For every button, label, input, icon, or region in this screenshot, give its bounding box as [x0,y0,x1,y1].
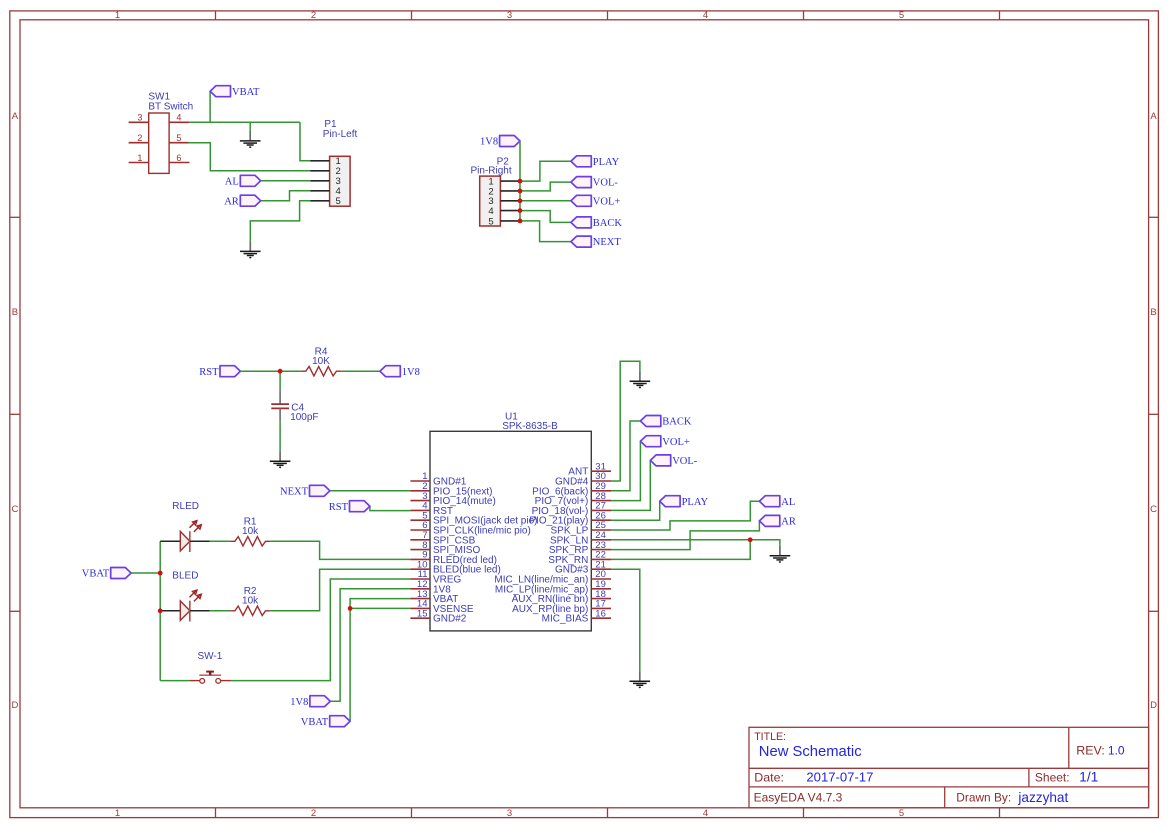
wire 1V8 bus down P2 pins [519,141,521,221]
svg-text:2: 2 [311,10,316,21]
svg-text:NEXT: NEXT [280,486,309,497]
junction dot VBAT rail upper [158,571,163,576]
svg-text:100pF: 100pF [290,412,318,423]
net flag BACK at U1 [640,416,660,427]
svg-text:SW-1: SW-1 [198,651,223,662]
net flag AL [240,175,260,186]
wire ground branch [249,122,251,131]
wire U1 pin29 to BACK [611,421,640,491]
svg-text:10k: 10k [242,526,259,537]
wire VBAT bottom flag to U1 pin13 [350,599,410,722]
svg-text:RST: RST [329,502,349,513]
svg-text:5: 5 [176,133,181,143]
wire C4 to ground [279,421,281,451]
svg-text:D: D [1150,700,1157,711]
ground below C4 [270,451,291,468]
net flag RST left [220,366,240,377]
wire U1 pin24 SPK_LN to ground right [611,540,780,546]
wire P2 pin3 to VOL+ [520,200,571,202]
LED BLED [160,610,180,612]
P1 pin numbers [336,156,341,207]
svg-text:3: 3 [137,113,142,123]
svg-text:AL: AL [225,176,239,187]
svg-text:1: 1 [115,10,120,21]
svg-text:1V8: 1V8 [290,697,308,708]
svg-text:VBAT: VBAT [301,717,329,728]
junction dot VSENSE [348,606,353,611]
resistor R2 10k [230,606,270,615]
svg-text:D: D [11,700,18,711]
svg-text:VBAT: VBAT [232,87,260,98]
svg-text:5: 5 [899,808,904,819]
ground right of U1 [770,546,791,563]
wire VBAT vertical rail [159,541,161,680]
svg-text:2: 2 [311,808,316,819]
connector P1 body [310,156,350,206]
wire U1 pin30 GND#4 to top ground [611,361,640,481]
svg-text:1/1: 1/1 [1079,769,1099,785]
wire U1 pin23 SPK_RP to AR [611,521,759,550]
wire U1 pin28 to VOL+ [611,441,640,500]
svg-text:1: 1 [137,153,142,163]
wire P2 pin1 to PLAY [520,161,571,181]
wire rail to SW-1 [160,680,190,682]
svg-text:NEXT: NEXT [593,237,622,248]
net flag AR [240,195,260,206]
svg-text:5: 5 [488,216,493,227]
wire P2 pin5 to NEXT [520,221,571,242]
frame column numbers [115,10,904,819]
svg-text:Drawn By:: Drawn By: [956,791,1011,805]
ground below right of U1 [630,671,651,688]
junction dots on P2 bus [518,179,523,224]
wire U1 pin26 to PLAY [611,501,660,520]
resistor R4 10K [301,367,341,376]
svg-text:1.0: 1.0 [1108,743,1125,757]
junction dot speaker net [748,537,753,542]
net flag NEXT at U1 [310,485,330,496]
wire P1 pin5 to ground [250,201,310,242]
svg-text:BACK: BACK [593,218,623,229]
svg-text:4: 4 [703,808,708,819]
net flag AR right [759,515,779,526]
connector P2 body [480,176,520,226]
svg-text:PLAY: PLAY [682,497,709,508]
capacitor C4 100pF [271,390,289,421]
wire RST to R4 [240,370,301,372]
svg-text:A: A [12,111,19,122]
svg-text:Pin-Right: Pin-Right [471,166,512,177]
switch SW-1 push button [190,672,231,684]
frame row letters [11,111,1157,711]
svg-text:GND#2: GND#2 [433,614,467,625]
wire U1 pin27 to VOL- [611,460,650,510]
ground below P1 [240,241,261,258]
net flag VOL- at P2 [571,177,591,188]
wire R4 to 1V8 flag [341,370,380,372]
svg-text:1: 1 [115,808,120,819]
net flag VOL- at U1 [650,455,670,466]
svg-text:B: B [12,307,18,318]
svg-text:1V8: 1V8 [480,137,498,148]
net flag PLAY at U1 [660,496,680,507]
svg-text:10K: 10K [312,356,330,367]
svg-text:1V8: 1V8 [402,367,420,378]
svg-text:AL: AL [781,497,795,508]
wire P2 pin4 to BACK [520,211,571,223]
LED RLED [160,540,180,542]
SW1 pin numbers [137,113,181,163]
wire R1 to U1 pin9 [270,541,410,559]
svg-text:3: 3 [507,808,512,819]
svg-text:4: 4 [176,113,181,123]
wire SW-1 to U1 pin11 [231,579,411,681]
svg-text:PLAY: PLAY [593,157,620,168]
svg-text:5: 5 [899,10,904,21]
net flag VOL+ at U1 [640,436,660,447]
svg-text:B: B [1150,307,1156,318]
svg-text:TITLE:: TITLE: [754,731,786,743]
svg-text:REV:: REV: [1076,743,1104,757]
ground near P1 [240,131,261,148]
svg-text:Date:: Date: [754,771,784,785]
svg-text:3: 3 [507,10,512,21]
switch SW1 BT Switch body [129,113,190,173]
wire VBAT flag to SW1 pin 4 net [209,91,211,122]
net flag 1V8 bottom [310,696,330,707]
net flag 1V8 at P2 [500,136,520,147]
svg-text:2: 2 [137,133,142,143]
svg-text:BLED: BLED [172,570,198,581]
resistor R1 10k [230,537,270,546]
svg-text:BACK: BACK [662,417,692,428]
wire U1 pin25 SPK_LP to AL [611,501,759,530]
wire R2 to U1 pin10 [270,569,410,611]
net flag BACK at P2 [571,217,591,228]
wire riser down to P1 pin1 [300,122,310,161]
title block lines [749,727,1149,808]
wire SW1 pin5 to P1 pin2 [188,143,310,171]
svg-text:VBAT: VBAT [82,569,110,580]
svg-text:Pin-Left: Pin-Left [323,129,358,140]
svg-text:VOL-: VOL- [593,178,619,189]
wire AR flag to P1 pin4 [261,191,311,201]
P2 pin numbers [488,177,493,228]
svg-text:VOL+: VOL+ [662,437,690,448]
svg-text:6: 6 [176,153,181,163]
svg-text:New Schematic: New Schematic [759,744,862,760]
svg-text:5: 5 [336,196,341,207]
wire VSENSE branch to U1 pin14 [350,607,410,609]
svg-text:VOL-: VOL- [672,456,698,467]
net flag PLAY at P2 [571,156,591,167]
svg-text:SPK-8635-B: SPK-8635-B [502,421,558,432]
net flag NEXT at P2 [571,236,591,247]
net flag VOL+ at P2 [571,195,591,206]
wire U1 pin22 SPK_RN to junction [611,540,750,560]
wire junction down to C4 [279,371,281,390]
svg-text:MIC_BIAS: MIC_BIAS [542,614,589,625]
U1 right pins 16-31 [494,461,611,624]
svg-text:RST: RST [199,367,219,378]
svg-text:AR: AR [781,517,796,528]
net flag 1V8 right of R4 [380,366,400,377]
svg-text:VOL+: VOL+ [593,196,621,207]
net flag VBAT left [111,568,131,579]
svg-text:Sheet:: Sheet: [1035,771,1070,785]
svg-text:10k: 10k [242,595,259,606]
net flag VBAT top [210,86,230,97]
svg-text:2017-07-17: 2017-07-17 [806,770,873,785]
svg-text:15: 15 [417,608,428,619]
svg-text:BT Switch: BT Switch [148,102,193,113]
svg-text:4: 4 [703,10,708,21]
svg-text:C: C [1150,504,1157,515]
wire P2 pin2 to VOL- [520,182,571,191]
wire VBAT flag to rail [131,572,160,574]
wire NEXT flag to U1 pin2 [330,490,411,492]
svg-text:AR: AR [224,196,239,207]
wire 1V8 bottom flag to U1 pin12 [330,589,410,701]
svg-text:C: C [11,504,18,515]
svg-text:A: A [1150,111,1157,122]
svg-text:RLED: RLED [172,501,199,512]
svg-text:16: 16 [595,608,606,619]
IC U1 SPK-8635-B body [430,431,591,631]
junction dot VBAT rail lower [158,608,163,613]
wire U1 pin21 GND#3 to bottom ground [611,569,640,671]
net flag RST at U1 [350,501,370,512]
junction dot RST node [278,369,283,374]
net flag AL right [759,496,779,507]
net flag VBAT bottom [330,716,350,727]
wire RLED to R1 [210,540,230,542]
wire SW1 pin4 horizontal to riser [189,121,300,123]
wire RST flag to U1 pin4 [370,506,411,510]
wire AL flag to P1 pin3 [261,180,311,182]
svg-text:EasyEDA V4.7.3: EasyEDA V4.7.3 [754,791,843,805]
ground above right of U1 [630,371,651,388]
U1 left pins 1-15 [410,471,537,625]
wire BLED to R2 [210,610,230,612]
svg-text:jazzyhat: jazzyhat [1017,790,1068,805]
